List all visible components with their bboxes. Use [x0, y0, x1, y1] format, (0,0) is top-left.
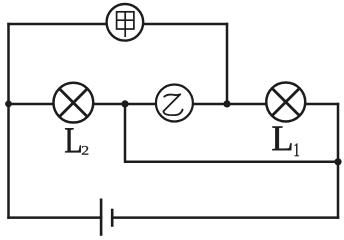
node: left rail junction — [5, 101, 12, 108]
label L2 subscript 2 — [82, 146, 88, 155]
wire: bottom right segment — [112, 216, 338, 219]
wire: middle row segment D — [305, 103, 338, 106]
wire: right rail — [337, 104, 340, 218]
wire: middle row segment B — [93, 103, 156, 106]
wire: bottom left segment — [9, 216, 102, 219]
label L1 subscript 1 — [295, 143, 299, 156]
wire: left rail — [7, 24, 10, 218]
label L1 letter — [272, 127, 291, 151]
meter 乙 (U2) — [156, 85, 193, 122]
lamp L1 — [266, 83, 305, 122]
battery BT1 short plate — [111, 209, 114, 227]
node: junction between meter and L1 — [223, 100, 230, 107]
wire: lower branch (down then right) — [125, 104, 338, 162]
wire: top left segment — [9, 23, 108, 26]
lamp L2 — [53, 83, 93, 123]
battery BT1 long plate — [100, 199, 103, 236]
wire: middle row segment C — [193, 103, 267, 106]
meter 甲 (U1) — [107, 4, 144, 41]
label L2 letter — [65, 128, 81, 152]
node: right rail junction — [334, 158, 341, 165]
wire: middle row segment A — [9, 103, 55, 106]
wire: mid vertical from top branch — [226, 24, 229, 104]
node: junction after L2 — [121, 100, 128, 107]
wire: top right segment — [143, 23, 227, 26]
